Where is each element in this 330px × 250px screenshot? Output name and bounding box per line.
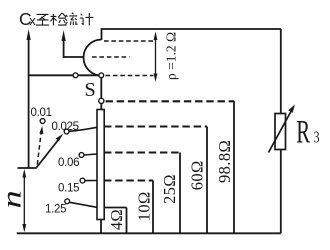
svg-text:0.025: 0.025 [52, 121, 79, 133]
label Chinese: zhi jian liu ji (to galvanometer) [36, 13, 93, 26]
svg-text:98.8Ω: 98.8Ω [215, 140, 234, 183]
tube dashed centerline [92, 56, 130, 58]
node: S right terminal [99, 73, 104, 78]
dashed tap wire to 98.8 ohm [106, 100, 235, 102]
wire: top tap node to bar [100, 104, 102, 111]
svg-text:10Ω: 10Ω [134, 191, 153, 221]
resistor lead 98.8 ohm [233, 101, 235, 233]
wire: contact 0.025 to bar [69, 127, 97, 131]
contact 0.025 [64, 129, 69, 134]
wire: top bus [102, 29, 281, 40]
dashed tap wire to 60 ohm [104, 125, 207, 127]
wiper alternate position dashed to 0.01 [37, 126, 43, 165]
tube dashed outline top [104, 40, 154, 42]
svg-text:4Ω: 4Ω [107, 209, 126, 230]
dashed tap wire to 10 ohm [104, 179, 153, 181]
svg-text:3: 3 [314, 128, 320, 147]
svg-text:x: x [29, 13, 36, 28]
char jian [50, 13, 66, 26]
svg-text:ρ =1.2 Ω: ρ =1.2 Ω [164, 32, 179, 80]
dimension arrow n [22, 169, 26, 232]
resistor lead 25 ohm [179, 153, 181, 234]
svg-text:R: R [296, 112, 310, 149]
selector bar (contact strip) [97, 110, 104, 220]
arrow: tube inlet arrowhead [62, 30, 66, 41]
resistor lead 10 ohm [152, 181, 154, 234]
wire: bottom bus [17, 232, 281, 234]
wire: right bus [280, 29, 282, 233]
tube dashed outline bottom [106, 75, 154, 77]
svg-text:0.15: 0.15 [58, 183, 79, 195]
electrolyte tube bulb (half circle) [84, 40, 102, 76]
svg-text:1.25: 1.25 [45, 204, 66, 216]
contact 0.15 [80, 178, 85, 183]
resistor lead 4 ohm [126, 208, 128, 234]
contact 0.06 [79, 153, 84, 158]
svg-text:60Ω: 60Ω [187, 160, 206, 190]
wire: bar bottom to bottom bus [100, 220, 102, 234]
rheostat R3 body [275, 114, 286, 150]
rheostat R3 arrow [269, 104, 295, 152]
char ji [80, 13, 93, 26]
wire: S branch [29, 74, 102, 76]
wiper pivot stub [18, 167, 37, 169]
svg-text:0.06: 0.06 [58, 157, 79, 169]
char liu [65, 13, 77, 25]
wire: tube bottom to top tap node [100, 78, 102, 99]
dimension arrow rho [154, 32, 158, 83]
arrow: Cx lead arrowhead [27, 29, 31, 40]
resistor lead 60 ohm [206, 127, 208, 234]
svg-text:25Ω: 25Ω [160, 174, 179, 204]
svg-text:n: n [0, 190, 26, 208]
wire: contact 1.25 to bar [70, 202, 97, 207]
svg-text:S: S [84, 79, 95, 101]
contact 0.01 [40, 119, 45, 124]
wire: contact 0.15 to bar [85, 180, 97, 182]
node: top tap [99, 98, 104, 103]
wire: tube inlet lead [64, 37, 84, 57]
wiper arm at 0.025 [37, 134, 64, 168]
dashed tap wire to 25 ohm [104, 151, 180, 153]
char zhi [36, 14, 49, 25]
svg-text:0.01: 0.01 [31, 107, 52, 119]
wire: left lead to galvanometer Cx [28, 36, 30, 168]
contact 1.25 [65, 199, 70, 204]
node: S left terminal [73, 73, 78, 78]
tap wire to 4 ohm [104, 207, 127, 209]
wire: contact 0.06 to bar [84, 154, 97, 155]
